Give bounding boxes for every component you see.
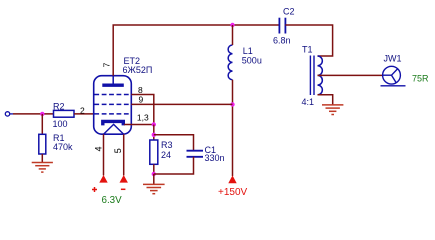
ground under R1 <box>32 163 53 173</box>
svg-text:100: 100 <box>53 119 68 129</box>
filament terminal - triangle <box>120 175 128 183</box>
input terminal J-IN <box>5 112 13 116</box>
ground under R3 <box>143 184 165 193</box>
ground under T1 <box>322 105 343 115</box>
svg-text:8: 8 <box>138 85 143 95</box>
svg-text:470k: 470k <box>53 142 73 152</box>
grid g3 dashed <box>94 94 130 96</box>
wire C1 branch top <box>154 135 194 151</box>
transformer T1 core <box>310 56 314 96</box>
wire R1 to ground <box>41 154 43 163</box>
wire pin 9 to screen node <box>131 103 232 105</box>
heater lead pin 5 <box>123 134 125 175</box>
resistor R3 <box>150 140 158 164</box>
wire C1 bottom return <box>154 157 194 174</box>
svg-text:5: 5 <box>113 148 123 153</box>
svg-text:75R: 75R <box>412 74 429 84</box>
svg-text:C2: C2 <box>283 7 295 17</box>
wire R2 to grid pin 2 <box>74 113 94 115</box>
svg-text:R3: R3 <box>161 140 173 150</box>
wire C2 to T1 <box>285 25 332 56</box>
resistor R1 <box>39 134 46 154</box>
wire L1 top stub <box>232 25 234 45</box>
capacitor C1 <box>187 151 204 157</box>
svg-text:4: 4 <box>93 146 103 151</box>
label + <box>92 187 97 192</box>
filament terminal + triangle <box>99 175 107 183</box>
svg-text:6.8n: 6.8n <box>273 35 291 45</box>
heater lead pin 4 <box>103 134 105 175</box>
svg-text:500u: 500u <box>242 55 262 65</box>
connector JW1 <box>381 66 406 86</box>
svg-text:2: 2 <box>80 106 85 116</box>
wire cathode <box>124 124 154 126</box>
svg-text:24: 24 <box>161 150 171 160</box>
resistor R2 <box>54 110 75 117</box>
svg-text:6.3V: 6.3V <box>102 195 123 206</box>
wire T1 tap to JW1 <box>318 74 383 76</box>
svg-text:JW1: JW1 <box>384 54 402 64</box>
junction dot cathode <box>152 122 156 126</box>
svg-text:7: 7 <box>101 62 111 67</box>
wire ground stem R3 <box>153 174 155 184</box>
wire anode to top rail <box>113 25 279 76</box>
junction dot L1 top <box>230 23 234 27</box>
grid g1 dashed <box>94 113 130 115</box>
svg-text:6Ж52П: 6Ж52П <box>123 65 153 75</box>
svg-text:R2: R2 <box>53 101 65 111</box>
junction dot R3 bottom <box>152 172 156 176</box>
anode lead inside <box>112 76 114 86</box>
svg-text:4:1: 4:1 <box>302 97 315 107</box>
capacitor C2 <box>279 18 285 34</box>
tube U1 envelope <box>94 76 132 135</box>
wire cathode node down <box>153 125 155 141</box>
svg-text:9: 9 <box>139 94 144 104</box>
wire input to R2 <box>13 113 54 115</box>
node A junction dot <box>40 112 44 116</box>
tube anode bar <box>102 83 124 86</box>
wire L1 bottom to +150V <box>232 80 234 176</box>
wire pin 8 <box>131 95 154 125</box>
svg-text:1,3: 1,3 <box>137 112 149 122</box>
label - <box>121 188 126 190</box>
heater filament <box>104 124 124 134</box>
junction dot C1 branch <box>152 133 156 137</box>
svg-text:330n: 330n <box>205 153 225 163</box>
wire T1 bottom to ground <box>318 95 333 105</box>
svg-text:+150V: +150V <box>218 187 248 198</box>
wire R1 stem <box>41 114 43 134</box>
wire R3 bottom <box>153 164 155 174</box>
inductor L1 <box>228 45 232 80</box>
junction dot screen node <box>230 102 234 106</box>
transformer T1 winding <box>318 56 323 95</box>
grid g2 dashed <box>94 103 130 105</box>
+150V terminal triangle <box>228 175 236 183</box>
tube cathode bar with end hooks <box>103 121 124 125</box>
svg-text:T1: T1 <box>302 45 313 55</box>
